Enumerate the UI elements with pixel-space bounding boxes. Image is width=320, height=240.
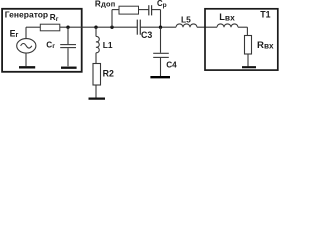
- svg-text:Rвх: Rвх: [257, 40, 274, 51]
- ground C4: [150, 76, 170, 78]
- terminal bar of Ег: [19, 66, 35, 68]
- svg-text:R2: R2: [103, 69, 114, 79]
- node junction Cг: [66, 26, 69, 29]
- inductor L1: [96, 27, 99, 63]
- svg-text:Т1: Т1: [260, 10, 270, 20]
- svg-text:L1: L1: [103, 40, 113, 50]
- node junction Rдоп: [110, 26, 113, 29]
- voltage source Ег: [17, 27, 36, 66]
- ground Rвх: [242, 66, 256, 68]
- svg-text:Ср: Ср: [157, 0, 167, 9]
- terminal bar of Cг: [61, 67, 77, 69]
- svg-text:С3: С3: [141, 30, 152, 40]
- svg-text:С4: С4: [166, 60, 177, 69]
- svg-text:L5: L5: [181, 14, 191, 24]
- capacitor C4: [153, 27, 169, 76]
- resistor Rвх: [245, 36, 252, 55]
- inductor L5: [176, 24, 197, 27]
- svg-text:Rдоп: Rдоп: [95, 0, 116, 8]
- wire Rдоп branch: [112, 10, 161, 28]
- inductor Lвх: [217, 24, 238, 27]
- svg-text:Генератор: Генератор: [5, 9, 48, 19]
- resistor Rг: [40, 24, 60, 31]
- capacitor Ср: [149, 5, 152, 15]
- node junction L1: [94, 26, 97, 29]
- T1 box: [205, 9, 278, 70]
- resistor R2: [93, 64, 101, 86]
- generator box: [2, 9, 82, 72]
- capacitor Cг: [60, 27, 76, 66]
- svg-text:Lвх: Lвх: [219, 12, 235, 23]
- wire main: [26, 26, 247, 28]
- ground R2: [89, 97, 106, 99]
- capacitor C3: [137, 20, 140, 35]
- wire to Rвх: [246, 27, 248, 35]
- node junction C4: [159, 26, 162, 29]
- resistor Rдоп: [119, 6, 139, 14]
